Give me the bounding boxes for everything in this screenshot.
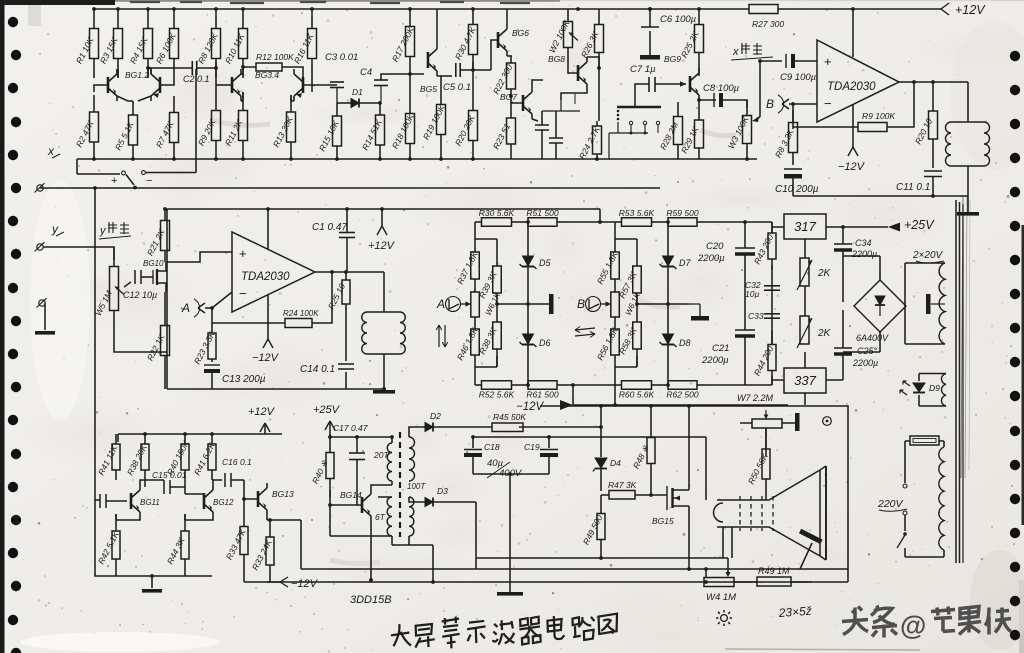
svg-text:C15 0.01: C15 0.01 [152,470,187,480]
svg-text:BG11: BG11 [140,498,160,507]
svg-text:x: x [47,144,55,158]
wire 337 connections [772,352,843,380]
inductor T2sec [939,263,945,344]
svg-text:R12 100K: R12 100K [256,52,294,62]
svg-text:D8: D8 [679,338,691,348]
wire D3 out [409,502,476,582]
wire BG13 base node [257,491,259,499]
capacitor C input [99,494,101,508]
svg-text:BG6: BG6 [512,28,529,38]
scan left edge strip [0,0,5,653]
wire CRT block box [267,406,848,582]
wire A diode column [527,222,529,385]
transformer T1 core [399,432,401,537]
brightness symbol [721,615,728,622]
svg-text:C19: C19 [524,442,540,452]
power +25V bottom [325,421,330,430]
resistor R41 [115,434,117,444]
svg-text:2×20V: 2×20V [912,250,944,261]
wire to ground [44,303,46,330]
capacitor C20 [735,247,755,249]
wire feedback to output [312,272,332,323]
svg-text:6A400V: 6A400V [856,333,889,343]
wire R45 50K row [519,426,601,428]
svg-text:C25°: C25° [857,346,878,356]
wire BG8 emitter down-left [561,89,587,100]
wire BG4 emitter [291,95,294,101]
capacitor C18 [472,437,474,474]
diode D2 [409,427,425,437]
resistor R27 300 [749,5,778,14]
wire TDA1 output [899,81,968,83]
wire W7 wiper down [765,428,767,456]
wire BG3 emitter down [241,92,243,101]
wire -12V bottom [244,581,280,583]
svg-text:−12V: −12V [838,161,866,173]
wire top rail mid [167,208,600,210]
wire TDA1 negative supply [852,104,854,147]
wire node to C9 100u [760,60,782,62]
ground G5 [497,592,523,596]
svg-text:R30 5.6K: R30 5.6K [479,208,515,218]
wire +25V into inverter [330,421,392,437]
wire W5 bottom [114,330,167,352]
inductor T1f [387,497,392,536]
diode D5 zener [523,256,534,266]
svg-text:C21: C21 [712,343,729,354]
diode D9 LED [919,374,946,407]
resistor R7 [173,96,175,113]
resistor R61 [518,384,528,386]
svg-text:C3 0.01: C3 0.01 [325,52,358,63]
resistor R40 [184,434,186,444]
wire C11 bottom [932,177,934,196]
ground G2 [35,331,55,335]
wire A bottom row [475,356,497,385]
wire feedback to output [887,82,914,127]
capacitor C11 0.1 [924,170,942,172]
CRT gun wires [723,527,732,558]
wire feedback row [793,126,858,128]
capacitor C34 [834,243,852,245]
wire BG7 base [511,96,523,103]
wire TDA2 neg supply [267,295,269,339]
capacitor C19 [548,437,550,474]
wire B arrows [575,328,595,336]
svg-text:+25V: +25V [904,218,935,232]
resistor R26 [598,9,600,25]
svg-text:C4: C4 [360,67,372,78]
switch comb contacts [617,106,661,109]
wire row1 mid nodes [92,7,96,11]
resistor R48x [650,406,652,438]
resistor R46b [269,520,271,537]
wire BG3 base [216,84,232,86]
wire C15 to BG12 base [170,480,204,501]
wire -12V rail [573,385,805,405]
CRT grid dashes [739,496,741,531]
svg-text:D5: D5 [539,258,551,268]
svg-text:100T: 100T [407,482,426,491]
svg-text:x: x [732,46,739,58]
wire beam to rail [800,543,812,569]
transistor BG11 [130,493,133,509]
resistor R10 [242,9,244,29]
inductor T1s [409,437,415,481]
resistor R1 [93,9,95,29]
wire minus node down [792,104,794,129]
transistor BG13 [257,491,260,507]
svg-text:C6 100µ: C6 100µ [660,14,697,25]
resistor R30 [475,221,482,223]
capacitor C15 0.01 [163,480,165,494]
resistor R15 [336,103,338,116]
op-amp U1 TDA2030 [817,40,899,122]
wire BG1-BG2 emitters [117,96,151,101]
diode D8 zener [663,334,674,344]
svg-text:D2: D2 [430,411,441,421]
capacitor C33 [764,313,780,315]
svg-text:C5 0.1: C5 0.1 [443,82,471,93]
svg-text:D3: D3 [437,486,448,496]
wire C17 links [356,437,358,505]
resistor R12 100K [256,63,282,71]
wire TDA1 power top [852,9,854,57]
resistor R46 [474,317,476,329]
resistor R45b [243,499,245,527]
svg-text:R9 100K: R9 100K [862,111,895,121]
wire C5 right [461,62,473,92]
transformer secondary 2x20V [905,263,945,344]
regulator 337 [784,368,826,393]
svg-text:R45 50K: R45 50K [493,412,526,422]
svg-text:23×5ž: 23×5ž [777,604,812,620]
terminal mains upper [903,484,907,488]
resistor R11 [242,92,244,111]
perforation dots left [8,17,18,27]
svg-text:R47 3K: R47 3K [608,480,637,490]
capacitor C9 100u [785,54,787,68]
svg-text:R24 100K: R24 100K [283,309,319,318]
paper crease lines right [961,196,963,478]
wire bottom rail left [95,500,212,576]
diode D4 zener [595,458,607,468]
CRT beam spot [799,529,823,544]
ground bottom left [151,576,153,588]
capacitor C7 1u [648,77,650,92]
power +12V mid [377,226,382,235]
wire TDA2 output [315,271,384,273]
resistor R3 [117,9,119,29]
svg-text:20T: 20T [373,450,389,460]
wire BG5 emitter to C5 [437,76,452,80]
transistor BG5 [427,52,430,68]
capacitor tuning C right [549,137,563,139]
svg-text:BG8: BG8 [548,54,565,64]
wire BG12 collector to C16 [212,480,222,485]
resistor R18 [409,98,411,114]
resistor R53 [615,221,622,223]
svg-text:+12V: +12V [248,406,276,418]
svg-text:BG7: BG7 [500,92,517,102]
svg-text:−12V: −12V [252,352,280,364]
resistor R44 [771,330,773,345]
wire A arrows [439,325,445,347]
wire left vertical enclosure [166,209,168,389]
wire bridge top [843,256,880,280]
wire BG2 base right [160,78,174,85]
svg-text:BG1.2: BG1.2 [125,70,149,80]
resistor R13 [290,95,292,112]
resistor R51 [518,221,528,223]
terminal y-gnd [39,300,45,306]
capacitor C3 0.01 [330,81,344,83]
wire bridge bottom [843,332,880,352]
wire left vertical bottom block [117,434,119,442]
resistor R24 [596,121,598,126]
transistor BG7 [522,95,525,111]
svg-text:C33: C33 [748,311,764,321]
wire output to yoke [967,82,969,122]
switch x polarity [77,159,120,174]
svg-text:C18: C18 [484,442,500,452]
svg-text:BG10: BG10 [143,259,164,268]
resistor R21 [164,209,166,221]
svg-text:337: 337 [794,373,816,388]
capacitor C2 0.1 [191,61,193,75]
resistor R16 [311,9,313,29]
scan bottom faint line [725,649,920,650]
wire TDA2 power top [267,209,269,249]
wire yoke2 top link [383,272,385,312]
resistor R4 [147,9,149,29]
svg-text:−: − [146,175,152,187]
svg-text:+: + [239,246,247,261]
svg-text:C7 1µ: C7 1µ [630,64,656,75]
wire A to minus input [205,292,232,330]
wire C7 right to BG9 base [655,83,686,85]
ground plate B [689,304,700,316]
transistor BG1 [107,77,110,93]
wire 317 connections [772,227,888,258]
wire W4 wiper arrow [727,558,729,572]
svg-text:D9: D9 [929,383,940,393]
power -12V bottom block [280,577,288,582]
resistor R23 [510,103,512,118]
resistor R59 [658,221,668,223]
paper mottle blobs [297,100,431,128]
resistor R28 [677,102,679,117]
svg-text:R53 5.6K: R53 5.6K [619,208,655,218]
svg-text:C16 0.1: C16 0.1 [222,457,252,467]
diode D3 [409,497,425,502]
wire C4 top to R17 node [381,74,410,80]
resistor R8 [215,9,217,29]
potentiometer W4 1M [704,578,734,587]
wire A top row [475,222,497,255]
svg-text:R27 300: R27 300 [752,19,784,29]
wire B diode column [667,222,669,385]
wire BG4 collector to C3 node [312,85,337,92]
svg-text:C14 0.1: C14 0.1 [300,364,335,375]
resistor R32 [932,82,934,111]
wire yoke2 bottom [383,354,385,389]
svg-text:6T: 6T [375,512,386,522]
wire top rail link [567,209,772,385]
capacitor C13 200u [204,364,220,366]
transistor BG12 [203,493,206,509]
svg-text:−12V: −12V [291,578,319,590]
svg-text:2200µ: 2200µ [697,253,725,264]
svg-text:D7: D7 [679,258,691,268]
resistor R25 [698,9,700,25]
wire yoke bottom to ground [967,166,969,212]
paper texture spots [20,632,220,652]
svg-text:C17 0.47: C17 0.47 [333,423,368,433]
wire BG10 drain to plus input [166,252,232,262]
svg-text:B: B [766,97,774,111]
power +12V top right [941,3,949,9]
wire bottom enclosure [167,388,386,390]
transistor BG3 [231,77,234,93]
wire long rails [301,558,848,569]
transformer core lines [955,200,957,563]
svg-text:220V: 220V [877,498,904,510]
svg-text:R51 500: R51 500 [526,208,558,218]
wire rail joins [143,432,147,436]
svg-text:+: + [111,175,117,187]
svg-text:D4: D4 [610,458,621,468]
svg-text:C34: C34 [855,238,872,248]
wire R43 column [745,222,772,385]
wire 2K link [804,286,806,316]
svg-text:2200µ: 2200µ [852,358,878,368]
inductor T2led [941,374,946,407]
svg-text:BG14: BG14 [340,490,362,500]
node focus dot symbol [823,417,832,426]
capacitor tuning C left [535,124,549,126]
capacitor C6 100u [641,26,659,28]
wire D2 to R45 50K [433,426,492,428]
op-amp U2 TDA2030 [232,232,315,312]
svg-text:BG12: BG12 [213,498,234,507]
transistor BG9 [689,76,692,92]
wire comb top link [542,100,580,111]
wire minus contact to C2 node [146,69,196,173]
potentiometer 2K upper [800,258,809,286]
svg-text:C1 0.47: C1 0.47 [312,222,347,233]
svg-text:TDA2030: TDA2030 [827,81,876,93]
resistor R22 [510,56,512,63]
potentiometer W2 [567,9,569,22]
svg-text:C12 10µ: C12 10µ [123,290,157,300]
resistor R58 [636,304,638,322]
wire cap to BG11 [95,500,127,501]
inductor T1p [387,443,392,481]
capacitor C8 100u [713,93,715,107]
wire x input line [40,187,660,189]
svg-text:C13 200µ: C13 200µ [222,374,266,385]
resistor R20 [472,92,474,111]
electrode plate W7 [795,413,800,431]
resistor R23b [211,330,213,333]
diode D6 zener [523,334,534,344]
svg-text:C20: C20 [706,241,724,252]
wire BG9 emitter [698,100,700,109]
terminal mains lower [903,511,907,515]
svg-text:A: A [181,301,190,315]
capacitor C35 [834,347,852,349]
svg-text:C11 0.1: C11 0.1 [896,182,930,193]
wire +12V rail bottom block [118,423,282,434]
resistor R52 [475,384,482,386]
resistor R41b [211,434,213,444]
wire C2 to BG3 stage [197,62,216,68]
wire C4 bottom [380,86,382,101]
capacitor C5 0.1 [455,63,457,77]
wire C1 top to rail [346,209,348,228]
resistor R57 [636,255,638,266]
wire B bottom row [615,356,637,385]
inductor T2p [939,447,944,550]
transistor BG10 FET [152,270,154,284]
watermark toutiao mangguoxia (chinese) [842,606,1011,641]
resistor R22b [164,292,166,326]
resistor R39 [496,255,498,266]
svg-text:2K: 2K [817,328,832,339]
electrode plate A [549,294,554,314]
svg-text:+12V: +12V [955,3,986,17]
resistor R47 3K [609,491,635,500]
svg-text:y: y [51,222,59,236]
wire BG3 collector up [241,67,243,74]
capacitor C10 200u [784,168,802,170]
resistor R40x [329,434,331,453]
svg-text:C8 100µ: C8 100µ [703,83,740,94]
wire top +12V rail [94,8,749,10]
wire BG13 emitter [267,515,301,569]
perforation dots right [1010,51,1020,61]
power -12V mid [560,400,573,410]
wire BG5 collector top [436,9,438,44]
svg-text:317: 317 [794,219,816,234]
bridge rectifier [854,280,906,332]
resistor R19 [440,80,442,105]
ground G4 [142,589,162,593]
wire anode row [473,437,706,500]
terminal x-in [37,185,43,191]
svg-text:−: − [824,96,832,111]
resistor R24b 100K [285,319,312,328]
wire to BG6 base [473,40,498,70]
wire BG9 collector [698,68,700,76]
wire C16 to BG13 base [231,480,258,499]
svg-text:B: B [577,297,585,311]
wire C12 to BG10 gate [141,276,153,278]
wire caps common [473,474,549,592]
power -12V TDA1 [848,147,853,156]
inductor T1s2 [409,497,414,536]
scan top edge marks [0,0,115,5]
svg-text:R49 1M: R49 1M [758,566,790,576]
resistor R38 [496,304,498,322]
svg-text:R60 5.6K: R60 5.6K [619,389,655,399]
resistor R60 [615,384,622,386]
svg-text:3DD15B: 3DD15B [350,594,392,606]
svg-text:2200µ: 2200µ [851,249,877,259]
wire B mid row [637,303,689,305]
wire bottom rail of top section [77,158,757,160]
